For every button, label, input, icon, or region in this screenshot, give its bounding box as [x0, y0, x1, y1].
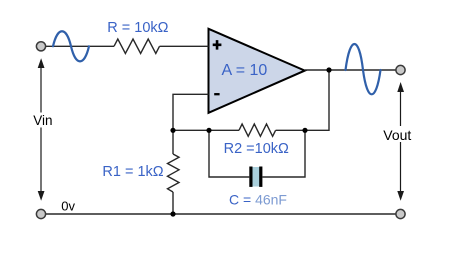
- svg-text:A = 10: A = 10: [222, 62, 268, 79]
- svg-text:R2 =10kΩ: R2 =10kΩ: [224, 141, 289, 157]
- svg-text:R = 10kΩ: R = 10kΩ: [107, 20, 168, 36]
- svg-text:R1 = 1kΩ: R1 = 1kΩ: [102, 164, 163, 180]
- svg-text:Vin: Vin: [33, 113, 52, 128]
- svg-text:0v: 0v: [61, 198, 75, 213]
- svg-text:C = 46nF: C = 46nF: [229, 192, 287, 208]
- svg-text:Vout: Vout: [383, 127, 411, 143]
